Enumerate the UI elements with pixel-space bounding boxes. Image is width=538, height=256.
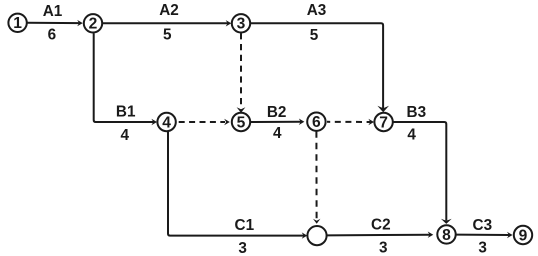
svg-text:4: 4 [273, 125, 282, 142]
svg-text:4: 4 [407, 127, 416, 144]
wire C3 (node 8 to node 9) [456, 234, 509, 236]
svg-text:3: 3 [379, 239, 388, 256]
arrowhead B1 [151, 119, 157, 125]
node 6 [307, 113, 325, 131]
svg-text:2: 2 [89, 16, 98, 33]
svg-text:A3: A3 [307, 2, 327, 19]
svg-text:7: 7 [379, 114, 388, 131]
svg-text:C1: C1 [235, 217, 255, 234]
node 5 [232, 113, 250, 131]
arrowhead dummy 3-5 [237, 107, 246, 112]
svg-text:5: 5 [163, 27, 172, 44]
wire A1 (node 1 to node 2) [27, 22, 80, 24]
svg-text:3: 3 [238, 240, 247, 256]
svg-text:5: 5 [237, 114, 246, 131]
dashed dummy arrow node 4 to node 5 [179, 121, 225, 123]
arrowhead A2 [226, 20, 232, 26]
svg-text:3: 3 [478, 240, 487, 256]
unnamed dummy node [307, 226, 326, 245]
svg-text:C2: C2 [371, 217, 391, 234]
arrowhead B3 [441, 219, 452, 224]
svg-text:A1: A1 [43, 3, 63, 20]
svg-text:4: 4 [121, 127, 130, 144]
wire B3 (node 7 right then down to node 8) [393, 122, 446, 221]
arrowhead A3 [377, 106, 389, 113]
dashed dummy arrow node 6 to node 7 [327, 121, 371, 123]
arrowhead C2 [428, 232, 434, 238]
node 2 [84, 14, 102, 32]
arrowhead dummy 6-7 [368, 119, 374, 125]
node 1 [8, 14, 26, 32]
wire A2 (node 2 to node 3) [103, 22, 228, 24]
svg-text:B2: B2 [267, 104, 287, 121]
arrowhead C1 [302, 232, 308, 238]
svg-text:B3: B3 [407, 104, 427, 121]
arrowhead dummy 6-node [313, 219, 320, 224]
node 3 [232, 14, 250, 32]
node 8 [437, 225, 455, 243]
svg-text:6: 6 [48, 26, 57, 43]
svg-text:4: 4 [162, 114, 171, 131]
svg-text:C3: C3 [473, 217, 493, 234]
svg-text:3: 3 [237, 16, 246, 33]
svg-text:8: 8 [442, 227, 451, 244]
svg-text:5: 5 [310, 27, 319, 44]
arrowhead A1 [77, 20, 83, 26]
arrowhead C3 [507, 232, 513, 238]
wire A3 (node 3 right then down to node 7) [251, 23, 383, 108]
node 7 [374, 113, 392, 131]
arrowhead B2 [299, 119, 305, 126]
arrowhead dummy 4-5 [224, 119, 230, 125]
svg-text:9: 9 [519, 227, 528, 244]
node 4 [157, 113, 175, 131]
dashed dummy arrow node 3 to node 5 [240, 33, 242, 105]
node 9 [514, 226, 532, 244]
svg-text:A2: A2 [159, 2, 179, 19]
svg-text:B1: B1 [116, 103, 136, 120]
wire B1 (node 2 down then right to node 4) [94, 33, 154, 122]
wire B2 (node 5 to node 6) [251, 121, 301, 123]
dashed dummy arrow node 6 to unnamed node [315, 131, 317, 218]
svg-text:6: 6 [312, 114, 321, 131]
wire C1 (node 4 down then right to unnamed node) [168, 132, 304, 236]
svg-text:1: 1 [13, 15, 22, 32]
wire C2 (unnamed node to node 8) [327, 234, 431, 237]
